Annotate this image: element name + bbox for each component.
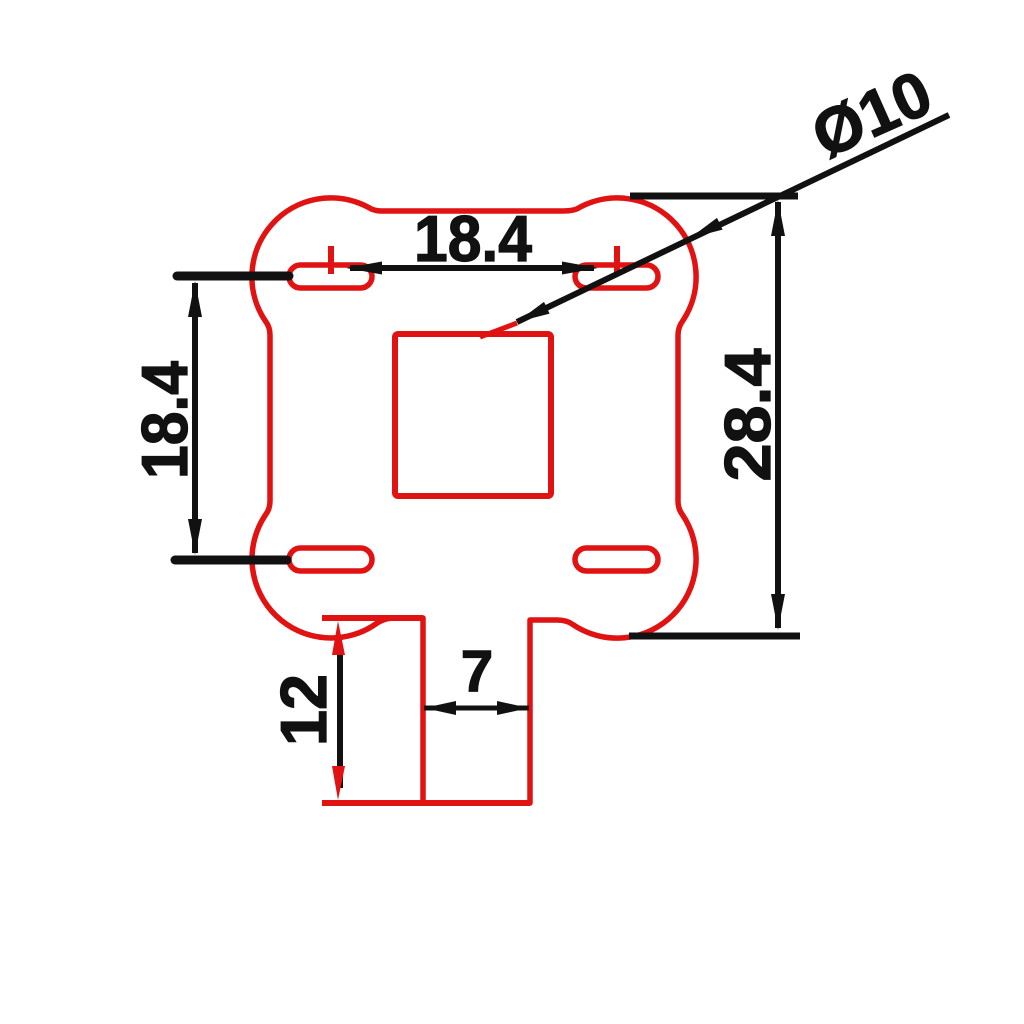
dim 28.4 right: dimension line (775, 202, 781, 628)
dim 18.4 top: left arrow (346, 262, 382, 275)
slot top-left (289, 265, 372, 288)
dim 7: right arrow (497, 701, 529, 715)
leader arrowhead at boss circle (690, 218, 723, 238)
dim 7: left arrow (424, 701, 456, 715)
dim 7: dimension line with arrows (424, 706, 529, 711)
slot top-right (575, 265, 658, 288)
center square hole (395, 334, 551, 496)
centre tick above top-right slot (614, 246, 620, 274)
leader red tail to square hole (480, 323, 517, 337)
svg-text:18.4: 18.4 (128, 361, 201, 479)
dim 18.4 top: left extension line (177, 272, 289, 281)
dim 28.4 right: bottom arrow (771, 594, 785, 630)
dim 18.4 top: dimension line (350, 265, 594, 271)
leader line for Ø10 (517, 115, 949, 322)
dim 28.4 right: top arrow (771, 200, 785, 236)
svg-text:28.4: 28.4 (711, 349, 784, 482)
svg-text:12: 12 (267, 674, 340, 746)
centre tick above top-left slot (328, 246, 334, 274)
slot bottom-left (289, 548, 372, 571)
dim 18.4 left: dimension line (192, 283, 198, 553)
dim 12: top arrow (red) (332, 621, 345, 655)
dim 18.4 left: top arrow (188, 281, 202, 317)
dim 12: dimension line (337, 650, 343, 788)
dim 28.4 right: bottom extension line (629, 633, 800, 640)
svg-text:18.4: 18.4 (414, 202, 532, 275)
slot bottom-right (575, 548, 658, 571)
svg-text:7: 7 (461, 639, 493, 704)
dim 18.4 left: bottom extension line (175, 556, 287, 565)
dim 18.4 top: right arrow (562, 262, 598, 275)
bottom bridge extension line (red, crosses left boss) (322, 615, 423, 621)
dim 28.4 right: top extension line (630, 193, 798, 200)
tab bottom edge extended left (red) (322, 800, 530, 806)
leader arrowhead at square hole (517, 302, 550, 322)
part outline (red body with four round bosses and bottom tab) (252, 198, 696, 803)
dim 18.4 left: bottom arrow (188, 519, 202, 555)
dim 12: bottom arrow (red) (332, 766, 345, 800)
